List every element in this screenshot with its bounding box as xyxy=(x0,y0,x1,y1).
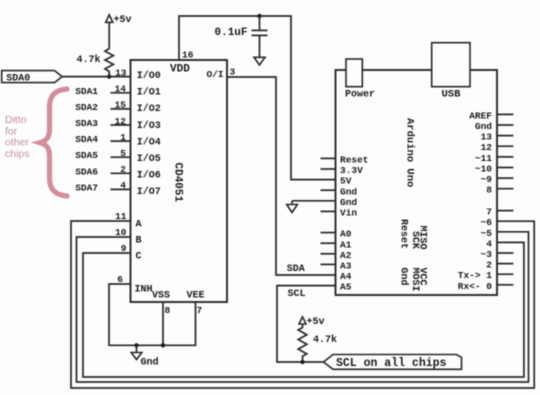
svg-text:I/O6: I/O6 xyxy=(137,170,161,182)
svg-text:4.7k: 4.7k xyxy=(313,334,337,346)
svg-text:A3: A3 xyxy=(340,261,352,272)
svg-text:VSS: VSS xyxy=(152,291,170,302)
svg-text:Tx-> 1: Tx-> 1 xyxy=(458,270,493,281)
svg-text:16: 16 xyxy=(182,50,194,61)
svg-text:SDA5: SDA5 xyxy=(75,150,98,161)
svg-text:+5v: +5v xyxy=(307,317,325,328)
svg-text:chips: chips xyxy=(5,148,30,160)
svg-text:SDA0: SDA0 xyxy=(6,73,30,84)
svg-text:other: other xyxy=(5,137,29,149)
svg-text:Gnd: Gnd xyxy=(340,186,357,197)
svg-text:8: 8 xyxy=(486,185,492,196)
svg-text:1: 1 xyxy=(120,132,126,143)
svg-text:Vin: Vin xyxy=(340,208,357,219)
svg-text:10: 10 xyxy=(115,227,127,238)
svg-text:Reset: Reset xyxy=(340,155,369,166)
svg-text:SDA: SDA xyxy=(287,264,305,275)
svg-text:I/O0: I/O0 xyxy=(137,70,161,82)
svg-text:I/O2: I/O2 xyxy=(137,103,161,115)
svg-text:~6: ~6 xyxy=(481,217,493,228)
svg-text:8: 8 xyxy=(165,305,171,316)
svg-text:A0: A0 xyxy=(340,229,352,240)
svg-text:I/O5: I/O5 xyxy=(137,153,161,165)
svg-text:VCC: VCC xyxy=(416,268,427,286)
svg-text:15: 15 xyxy=(115,100,127,111)
svg-text:SDA1: SDA1 xyxy=(75,86,98,97)
svg-text:Rx<- 0: Rx<- 0 xyxy=(458,281,493,292)
svg-text:SDA4: SDA4 xyxy=(75,134,98,145)
svg-text:4: 4 xyxy=(120,180,126,191)
svg-text:0.1uF: 0.1uF xyxy=(215,27,248,39)
svg-text:~10: ~10 xyxy=(475,164,492,175)
svg-text:A5: A5 xyxy=(340,282,352,293)
svg-text:CD4051: CD4051 xyxy=(172,163,184,203)
svg-text:~5: ~5 xyxy=(481,228,493,239)
svg-text:SCL: SCL xyxy=(288,289,306,300)
svg-text:I/O1: I/O1 xyxy=(137,87,161,99)
svg-text:for: for xyxy=(5,126,18,138)
svg-text:~3: ~3 xyxy=(481,249,493,260)
svg-text:Power: Power xyxy=(345,90,375,101)
svg-text:9: 9 xyxy=(121,243,127,254)
svg-text:11: 11 xyxy=(115,211,127,222)
svg-text:2: 2 xyxy=(486,260,492,271)
svg-text:Gnd: Gnd xyxy=(141,357,159,369)
svg-text:C: C xyxy=(136,251,142,262)
svg-text:A: A xyxy=(136,219,142,230)
svg-text:~11: ~11 xyxy=(475,153,492,164)
svg-text:5V: 5V xyxy=(340,176,352,187)
svg-text:SDA2: SDA2 xyxy=(75,102,98,113)
svg-text:5: 5 xyxy=(120,148,126,159)
svg-text:VDD: VDD xyxy=(170,64,190,76)
svg-text:AREF: AREF xyxy=(469,110,492,121)
svg-text:O/I: O/I xyxy=(207,69,224,80)
svg-text:I/O4: I/O4 xyxy=(137,136,161,148)
svg-text:INH: INH xyxy=(135,285,153,296)
svg-text:VEE: VEE xyxy=(187,291,205,302)
svg-text:USB: USB xyxy=(442,89,462,101)
svg-text:SDA6: SDA6 xyxy=(75,166,98,177)
svg-text:13: 13 xyxy=(481,132,493,143)
svg-text:SDA3: SDA3 xyxy=(75,118,98,129)
svg-text:B: B xyxy=(136,235,142,246)
svg-text:I/O3: I/O3 xyxy=(137,120,161,132)
svg-text:4.7k: 4.7k xyxy=(77,54,101,66)
svg-text:Gnd: Gnd xyxy=(340,197,357,208)
svg-text:+5v: +5v xyxy=(114,15,132,26)
svg-text:4: 4 xyxy=(486,238,492,249)
svg-text:Gnd: Gnd xyxy=(475,121,492,132)
svg-text:12: 12 xyxy=(481,142,493,153)
svg-text:I/O7: I/O7 xyxy=(137,186,161,198)
svg-text:12: 12 xyxy=(115,116,127,127)
svg-text:MISO: MISO xyxy=(416,226,427,250)
svg-text:~9: ~9 xyxy=(481,174,493,185)
svg-text:A4: A4 xyxy=(340,271,352,282)
svg-text:14: 14 xyxy=(115,84,127,95)
svg-text:Reset: Reset xyxy=(398,219,409,249)
svg-text:7: 7 xyxy=(486,207,492,218)
svg-text:3: 3 xyxy=(230,67,236,78)
svg-text:13: 13 xyxy=(115,67,127,78)
svg-text:3.3V: 3.3V xyxy=(340,165,363,176)
svg-text:A1: A1 xyxy=(340,239,352,250)
svg-text:A2: A2 xyxy=(340,250,352,261)
svg-text:SCL on all chips: SCL on all chips xyxy=(336,357,447,370)
svg-text:Arduino Uno: Arduino Uno xyxy=(404,118,416,187)
svg-text:2: 2 xyxy=(120,164,126,175)
svg-text:SDA7: SDA7 xyxy=(75,182,98,193)
svg-text:7: 7 xyxy=(197,305,203,316)
svg-text:Ditto: Ditto xyxy=(5,114,27,126)
svg-text:Gnd: Gnd xyxy=(398,268,410,286)
